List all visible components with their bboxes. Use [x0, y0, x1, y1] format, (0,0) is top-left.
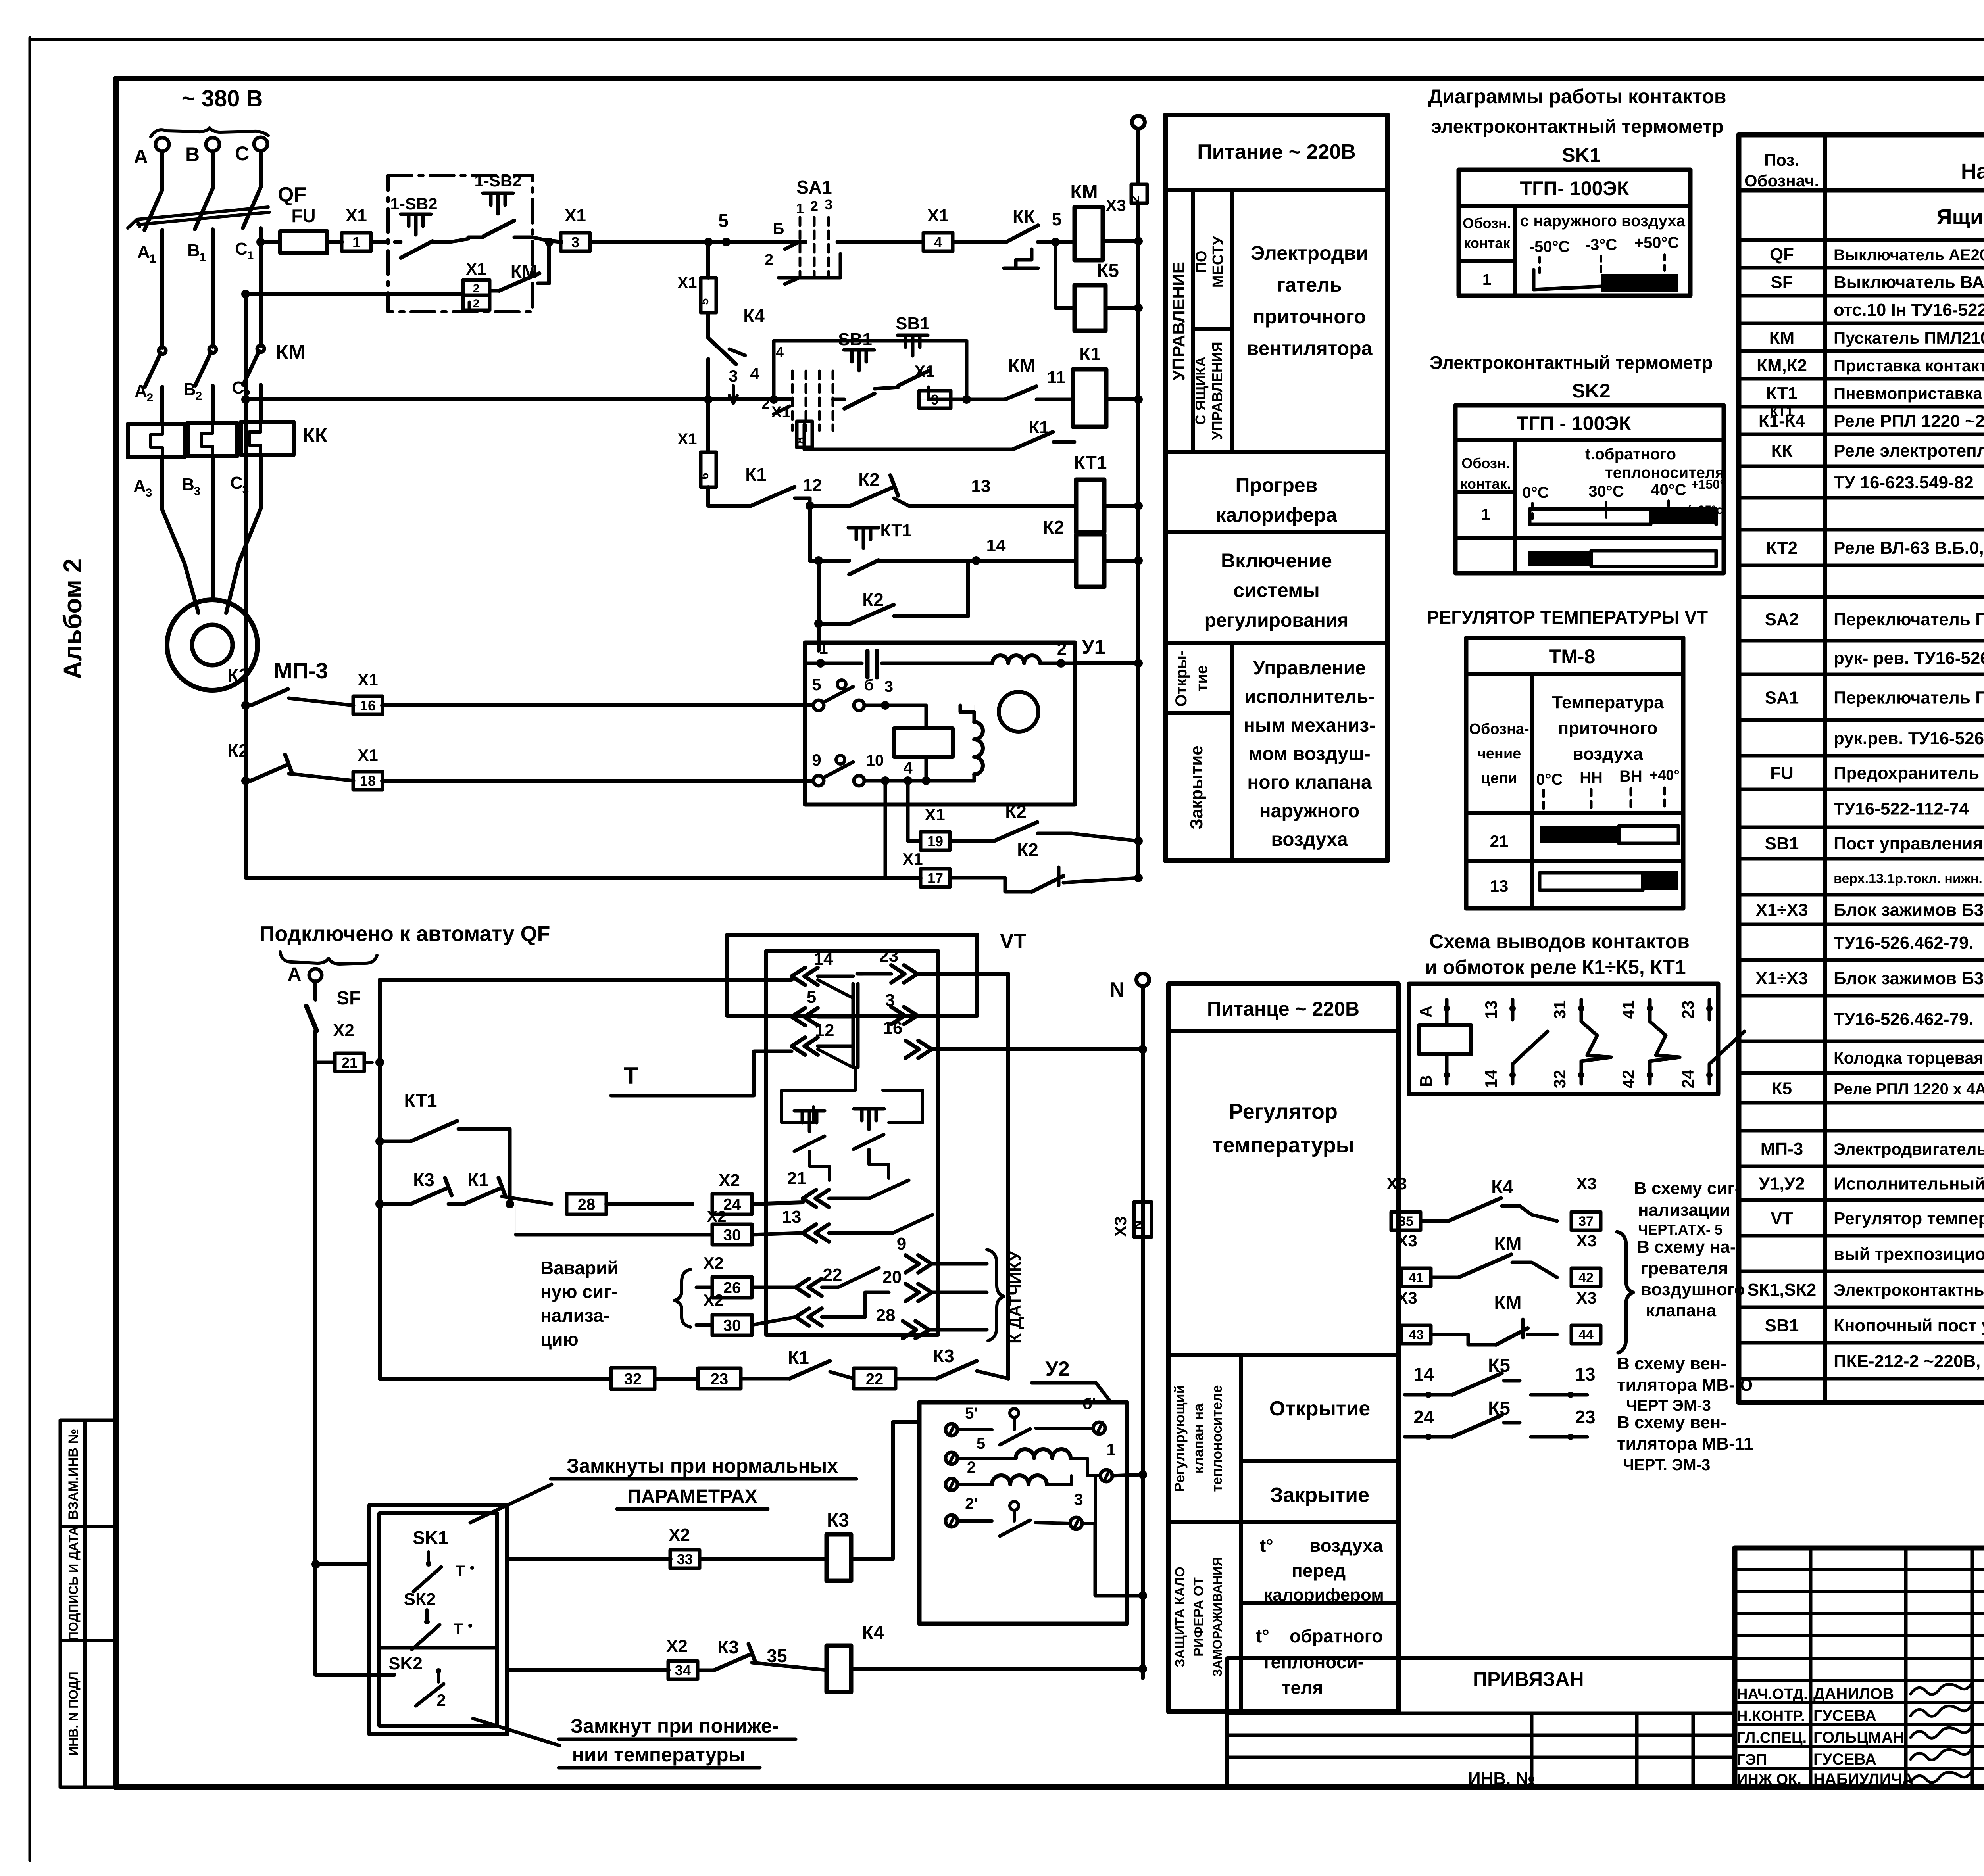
- svg-text:+150°: +150°: [1691, 477, 1725, 492]
- svg-text:Х2: Х2: [703, 1254, 723, 1272]
- left control rail: [244, 294, 248, 878]
- svg-text:30: 30: [723, 1317, 741, 1334]
- U2 pin1 to N bus: [1138, 1470, 1147, 1479]
- svg-text:2: 2: [196, 390, 202, 403]
- svg-text:ВН: ВН: [1619, 768, 1642, 785]
- row Открытие: [1241, 1459, 1398, 1463]
- svg-text:Исполнительный механизм МЭО: Исполнительный механизм МЭО: [1834, 1174, 1984, 1194]
- wire C1 drop: [259, 228, 263, 346]
- SK2 diagram box: [1455, 405, 1724, 573]
- svg-text:Реле РПЛ 1220 ~220В ТУ16-523.5: Реле РПЛ 1220 ~220В ТУ16-523.554-78: [1834, 411, 1984, 431]
- svg-text:Замкнуты при нормальных: Замкнуты при нормальных: [567, 1455, 838, 1477]
- svg-text:Х1: Х1: [565, 206, 586, 225]
- svg-text:2: 2: [147, 391, 154, 404]
- svg-text:Х2: Х2: [669, 1525, 690, 1545]
- svg-text:2: 2: [436, 1691, 446, 1709]
- svg-text:тие: тие: [1193, 665, 1211, 691]
- svg-text:У1,У2: У1,У2: [1759, 1174, 1805, 1194]
- svg-text:КТ1: КТ1: [404, 1090, 437, 1111]
- svg-text:2: 2: [1057, 639, 1067, 659]
- circuit breaker QF: [144, 190, 162, 230]
- svg-text:электроконтактный термометр: электроконтактный термометр: [1431, 116, 1723, 137]
- svg-text:3: 3: [571, 234, 579, 250]
- VT inner box: [766, 951, 938, 1335]
- function table2 frame: [1169, 984, 1398, 1712]
- switch SA1 lower group: [791, 371, 794, 430]
- svg-text:Электроконтактный термометр ТГ: Электроконтактный термометр ТГП-100ЭК: [1834, 1281, 1984, 1299]
- svg-text:Х1÷Х3: Х1÷Х3: [1756, 901, 1808, 920]
- svg-text:В схему вен-: В схему вен-: [1617, 1354, 1726, 1373]
- svg-text:УПРАВЛЕНИЕ: УПРАВЛЕНИЕ: [1169, 262, 1188, 381]
- svg-text:26: 26: [723, 1279, 741, 1296]
- svg-text:КК: КК: [1013, 206, 1035, 227]
- svg-text:Регулятор температуры полупров: Регулятор температуры полупроводнико-: [1834, 1209, 1984, 1228]
- svg-text:42: 42: [1578, 1270, 1594, 1285]
- svg-text:33: 33: [677, 1551, 693, 1567]
- svg-text:К1: К1: [788, 1347, 809, 1368]
- svg-text:Переключатель ПКУЗ-12С-УЗ схем: Переключатель ПКУЗ-12С-УЗ схема 2001: [1834, 688, 1984, 708]
- wire rung1 from C1: [261, 240, 280, 244]
- svg-text:Х2: Х2: [333, 1021, 354, 1040]
- rung B wire: [246, 397, 792, 401]
- svg-text:44: 44: [1578, 1327, 1594, 1342]
- svg-text:SA2: SA2: [1765, 610, 1799, 629]
- svg-text:КМ: КМ: [1070, 182, 1098, 203]
- svg-text:Х1: Х1: [771, 403, 791, 421]
- svg-text:32: 32: [624, 1370, 642, 1388]
- svg-text:верх.13.1р.токл. нижн. красн.1: верх.13.1р.токл. нижн. красн.13.1р.ТУ16-…: [1834, 871, 1984, 886]
- svg-text:А: А: [135, 381, 147, 401]
- svg-text:ГУСЕВА: ГУСЕВА: [1813, 1707, 1876, 1724]
- svg-text:t°: t°: [1260, 1535, 1273, 1556]
- motor MP-3: [167, 600, 258, 690]
- VT chevron 26 row with contact: [796, 1279, 809, 1296]
- svg-text:Х1: Х1: [678, 274, 697, 292]
- svg-text:рук.рев. ТУ16-526.047-74: рук.рев. ТУ16-526.047-74: [1834, 729, 1984, 748]
- svg-text:В: В: [182, 475, 194, 494]
- svg-text:тилятора МВ-11: тилятора МВ-11: [1617, 1434, 1753, 1454]
- svg-text:Х1: Х1: [902, 850, 923, 868]
- svg-text:КМ: КМ: [1494, 1234, 1521, 1255]
- svg-text:SB1: SB1: [896, 314, 930, 333]
- svg-text:Откры-: Откры-: [1173, 650, 1190, 707]
- rung SK1 to K3 coil: [311, 1560, 320, 1569]
- U2 top switch: [1010, 1409, 1019, 1417]
- svg-text:42: 42: [1619, 1070, 1638, 1089]
- svg-text:калорифером: калорифером: [1264, 1585, 1384, 1605]
- svg-text:ЧЕРТ.АТХ- 5: ЧЕРТ.АТХ- 5: [1638, 1221, 1723, 1238]
- svg-text:К1: К1: [1079, 344, 1101, 364]
- svg-text:21: 21: [342, 1054, 358, 1071]
- svg-text:К2: К2: [227, 665, 249, 685]
- svg-text:Х1: Х1: [346, 206, 367, 225]
- U1 pin2 wire to bus: [1075, 661, 1138, 665]
- row Закрытие: [1169, 1520, 1398, 1524]
- svg-text:FU: FU: [291, 205, 315, 226]
- svg-text:УПРАВЛЕНИЯ: УПРАВЛЕНИЯ: [1209, 342, 1225, 440]
- svg-text:чение: чение: [1477, 745, 1521, 762]
- contactor KM main contacts: [159, 347, 166, 354]
- U2 pin3 stub to N bus: [1095, 1523, 1143, 1596]
- svg-text:1: 1: [1481, 506, 1490, 523]
- svg-text:С ЯЩИКА: С ЯЩИКА: [1192, 357, 1209, 425]
- svg-text:Х3: Х3: [1105, 196, 1126, 215]
- svg-text:Электродви: Электродви: [1251, 242, 1368, 264]
- svg-text:теля: теля: [1282, 1677, 1323, 1698]
- svg-text:ГЭП: ГЭП: [1737, 1751, 1767, 1768]
- svg-text:SK1: SK1: [1562, 144, 1600, 166]
- svg-text:14: 14: [986, 536, 1006, 555]
- svg-text:Открытие: Открытие: [1269, 1397, 1370, 1420]
- brace avar: [675, 1269, 690, 1327]
- row t воздуха перед калорифером: [1241, 1601, 1398, 1605]
- svg-text:13: 13: [1575, 1364, 1595, 1384]
- svg-text:3: 3: [884, 678, 893, 695]
- terminal X1:9: [919, 399, 929, 400]
- svg-text:С: С: [235, 142, 249, 165]
- svg-text:Н.КОНТР.: Н.КОНТР.: [1737, 1708, 1805, 1724]
- svg-text:цепи: цепи: [1481, 770, 1517, 787]
- svg-text:КМ: КМ: [1769, 328, 1795, 348]
- svg-text:В: В: [185, 143, 200, 165]
- svg-text:Схема выводов контактов: Схема выводов контактов: [1429, 930, 1690, 952]
- svg-text:ТУ16-522-112-74: ТУ16-522-112-74: [1834, 799, 1969, 819]
- svg-text:6: 6: [698, 473, 711, 480]
- svg-text:НАЧ.ОТД.: НАЧ.ОТД.: [1737, 1686, 1808, 1703]
- svg-text:1: 1: [819, 639, 828, 657]
- svg-text:Ящик управления: Ящик управления: [1937, 205, 1984, 229]
- svg-text:35: 35: [1398, 1214, 1413, 1229]
- svg-text:11: 11: [1047, 368, 1066, 387]
- svg-text:У1: У1: [1082, 636, 1105, 658]
- svg-text:SB1: SB1: [1765, 834, 1799, 853]
- svg-text:Пускатель ПМЛ210004~220В ТУ16-: Пускатель ПМЛ210004~220В ТУ16-526.437-78: [1834, 328, 1984, 347]
- svg-text:Х1: Х1: [466, 259, 486, 278]
- svg-text:Б: Б: [773, 220, 784, 238]
- svg-text:8: 8: [794, 437, 807, 444]
- svg-text:В: В: [1417, 1075, 1435, 1087]
- wire B1 drop: [211, 229, 215, 347]
- svg-text:30°С: 30°С: [1588, 483, 1624, 500]
- table1 col dividers: [1191, 190, 1195, 452]
- svg-text:Пост управления ПКЕ-122-2УЗ т: Пост управления ПКЕ-122-2УЗ толк.: [1834, 834, 1984, 853]
- svg-text:РЕГУЛЯТОР ТЕМПЕРАТУРЫ VТ: РЕГУЛЯТОР ТЕМПЕРАТУРЫ VТ: [1427, 607, 1708, 628]
- wires to motor: [162, 457, 198, 613]
- svg-text:~ 380 В: ~ 380 В: [182, 86, 263, 111]
- svg-text:Включение: Включение: [1221, 549, 1332, 572]
- phase terminal B: [206, 138, 219, 151]
- wire A1 drop: [160, 230, 164, 348]
- U1 motor circle: [999, 692, 1038, 732]
- svg-text:Х3: Х3: [1576, 1174, 1596, 1193]
- svg-text:0°С: 0°С: [1536, 771, 1563, 788]
- svg-text:9: 9: [812, 751, 821, 769]
- VT outer box: [727, 935, 977, 1016]
- svg-text:5: 5: [807, 987, 816, 1007]
- svg-text:КМ,К2: КМ,К2: [1757, 356, 1807, 375]
- svg-text:ПО: ПО: [1193, 251, 1210, 273]
- svg-text:ВЗАМ.ИНВ №: ВЗАМ.ИНВ №: [66, 1429, 81, 1520]
- VT thyristor symbols: [794, 1109, 825, 1113]
- VT linkage: [852, 984, 855, 1067]
- svg-text:3: 3: [194, 485, 201, 498]
- svg-text:1: 1: [1106, 1440, 1115, 1459]
- svg-text:14: 14: [814, 949, 833, 969]
- svg-text:1: 1: [796, 200, 804, 217]
- svg-text:ДАНИЛОВ: ДАНИЛОВ: [1813, 1685, 1894, 1703]
- svg-text:Х3: Х3: [1397, 1231, 1417, 1250]
- wire phase A drop: [160, 151, 164, 190]
- bypass wire around SB1: [774, 341, 967, 399]
- wire B2: [211, 386, 215, 423]
- svg-text:Пневмоприставка ПВЛ1104 ТУ16-5: Пневмоприставка ПВЛ1104 ТУ16-526.437-78: [1834, 384, 1984, 403]
- wire to X1:3: [533, 237, 547, 240]
- thermometer box SK outer: [369, 1505, 507, 1734]
- wire phase C drop: [259, 151, 263, 187]
- wire phase B drop: [211, 151, 215, 188]
- parts table header: [1739, 188, 1984, 193]
- svg-text:28: 28: [578, 1196, 596, 1213]
- svg-text:ЧЕРТ ЭМ-3: ЧЕРТ ЭМ-3: [1626, 1397, 1711, 1414]
- svg-text:Х2: Х2: [666, 1636, 688, 1656]
- svg-text:FU: FU: [1770, 764, 1794, 783]
- phase terminal C: [254, 137, 267, 151]
- svg-text:Х3: Х3: [1386, 1174, 1407, 1193]
- svg-text:ЧЕРТ. ЭМ-3: ЧЕРТ. ЭМ-3: [1623, 1456, 1710, 1474]
- svg-text:нализации: нализации: [1638, 1200, 1730, 1220]
- svg-text:14: 14: [1413, 1364, 1434, 1384]
- sheet outer border left: [29, 38, 31, 1861]
- svg-text:ТМ-8: ТМ-8: [1549, 645, 1596, 668]
- svg-text:Выключатель ВА14-2614 I: Выключатель ВА14-2614 Iр=1,6А: [1834, 273, 1984, 292]
- svg-text:ТУ16-526.462-79.: ТУ16-526.462-79.: [1834, 1010, 1974, 1029]
- svg-text:Х1: Х1: [358, 746, 378, 764]
- svg-text:ПАРАМЕТРАХ: ПАРАМЕТРАХ: [627, 1486, 757, 1507]
- svg-text:цию: цию: [540, 1329, 579, 1350]
- U2 bottom switch: [1010, 1502, 1019, 1510]
- svg-text:Блок зажимов Б324-Ч.0П25-В/ВУ: Блок зажимов Б324-Ч.0П25-В/ВУЗ-10: [1834, 969, 1984, 988]
- table2 rotated Регулирующий клапан: [1239, 1355, 1243, 1712]
- V2 vertical and top feed: [378, 1062, 382, 1379]
- sheet outer border top: [30, 38, 1984, 41]
- svg-text:21: 21: [1490, 832, 1509, 851]
- svg-text:5: 5: [812, 675, 821, 694]
- svg-text:14: 14: [1482, 1070, 1500, 1088]
- svg-text:28: 28: [876, 1306, 896, 1325]
- terminal A SF: [309, 969, 322, 981]
- svg-text:А: А: [1417, 1006, 1435, 1018]
- svg-text:воздуха: воздуха: [1309, 1535, 1383, 1556]
- svg-text:2: 2: [967, 1459, 976, 1476]
- SK2 row2 bar: [1528, 551, 1591, 566]
- svg-text:1-SB2: 1-SB2: [390, 194, 437, 213]
- node junctions rung1: [545, 238, 554, 246]
- svg-text:приточного: приточного: [1558, 718, 1658, 738]
- svg-text:наружного: наружного: [1259, 801, 1360, 822]
- svg-text:К4: К4: [743, 305, 765, 326]
- svg-text:1: 1: [200, 251, 206, 264]
- svg-text:МП-3: МП-3: [1761, 1139, 1803, 1159]
- svg-text:С: С: [232, 378, 244, 397]
- svg-text:3: 3: [1074, 1490, 1083, 1509]
- svg-text:МП-3: МП-3: [274, 658, 328, 683]
- leader to caption normal: [470, 1484, 552, 1523]
- svg-text:t°: t°: [1256, 1626, 1269, 1646]
- svg-text:2: 2: [473, 297, 480, 310]
- svg-text:ИНЖ ОК.: ИНЖ ОК.: [1737, 1771, 1801, 1788]
- svg-text:+50°С: +50°С: [1634, 234, 1679, 252]
- aux signal rung K3 K1: [380, 1202, 411, 1206]
- svg-text:калорифера: калорифера: [1216, 504, 1337, 526]
- svg-text:4: 4: [776, 344, 784, 360]
- svg-text:мом воздуш-: мом воздуш-: [1248, 743, 1371, 764]
- svg-text:А: А: [137, 242, 150, 262]
- svg-text:ную сиг-: ную сиг-: [540, 1281, 617, 1302]
- svg-text:Поз.: Поз.: [1764, 151, 1799, 169]
- phase terminal A: [156, 138, 169, 151]
- svg-text:К2: К2: [1043, 517, 1064, 538]
- svg-text:N: N: [1130, 1220, 1146, 1230]
- svg-text:Х3: Х3: [1111, 1216, 1130, 1237]
- svg-text:Электроконтактный термометр: Электроконтактный термометр: [1430, 352, 1713, 373]
- svg-text:41: 41: [1619, 1000, 1638, 1019]
- svg-text:3: 3: [729, 367, 738, 385]
- svg-text:нализа-: нализа-: [540, 1305, 609, 1326]
- svg-text:воздуха: воздуха: [1573, 744, 1643, 764]
- svg-text:отс.10 Iн ТУ16-522.110-74: отс.10 Iн ТУ16-522.110-74: [1834, 300, 1984, 320]
- svg-text:тилятора МВ-Ю: тилятора МВ-Ю: [1617, 1375, 1753, 1395]
- svg-text:Колодка торцевая КТ5У ТУ16-526: Колодка торцевая КТ5У ТУ16-526.462-79: [1834, 1048, 1984, 1067]
- svg-text:2: 2: [810, 198, 818, 214]
- svg-text:регулирования: регулирования: [1205, 610, 1349, 631]
- svg-text:ЗАЩИТА КАЛО: ЗАЩИТА КАЛО: [1173, 1567, 1188, 1667]
- svg-text:КК: КК: [302, 424, 328, 447]
- svg-text:К1: К1: [745, 464, 767, 485]
- svg-text:НАБИУЛИЧА: НАБИУЛИЧА: [1813, 1770, 1913, 1788]
- U1 relay box: [894, 728, 953, 757]
- svg-text:гревателя: гревателя: [1641, 1259, 1728, 1278]
- svg-text:Регулирующий: Регулирующий: [1171, 1385, 1188, 1492]
- svg-text:5: 5: [1052, 210, 1061, 229]
- svg-text:23: 23: [1575, 1407, 1595, 1427]
- svg-text:30: 30: [723, 1226, 741, 1244]
- svg-text:КМ: КМ: [1008, 355, 1035, 376]
- rung2 self-hold wire: [246, 292, 463, 296]
- svg-text:ГУСЕВА: ГУСЕВА: [1813, 1751, 1876, 1768]
- svg-text:клапан на: клапан на: [1190, 1403, 1206, 1474]
- svg-text:-3°С: -3°С: [1585, 236, 1617, 253]
- svg-text:Подключено к автомату QF: Подключено к автомату QF: [259, 922, 550, 946]
- svg-text:Реле РПЛ 1220 х 4А~220В; ТУ16-: Реле РПЛ 1220 х 4А~220В; ТУ16-523.554-78: [1834, 1081, 1984, 1098]
- wire A2: [160, 387, 164, 424]
- svg-text:13: 13: [782, 1207, 802, 1227]
- svg-text:КТ2: КТ2: [1766, 538, 1798, 558]
- svg-text:2: 2: [765, 251, 773, 269]
- svg-text:1: 1: [352, 234, 360, 250]
- svg-text:К2: К2: [862, 589, 884, 610]
- svg-text:Реле электротепловое РТЛ101604: Реле электротепловое РТЛ101604: [1834, 441, 1984, 461]
- svg-text:Регулятор: Регулятор: [1229, 1100, 1338, 1123]
- sub branch X1:8 and K1 self-hold: [803, 424, 806, 449]
- svg-text:Приставка контактная ПКЛ ТУ16-: Приставка контактная ПКЛ ТУ16-526437-78: [1834, 356, 1984, 375]
- wire SA1 to X1:4: [845, 240, 923, 244]
- wire 16 to N bus: [932, 1047, 1143, 1051]
- svg-text:У2: У2: [1045, 1358, 1069, 1381]
- svg-text:Температура: Температура: [1552, 693, 1664, 712]
- svg-text:2: 2: [1127, 196, 1142, 203]
- U1 capacitor: [865, 651, 870, 677]
- contact KT1 bypass rung: [375, 1137, 384, 1146]
- svg-text:SK1: SK1: [413, 1527, 448, 1548]
- svg-text:ТУ16-526.462-79.: ТУ16-526.462-79.: [1834, 933, 1974, 952]
- svg-text:17: 17: [927, 870, 943, 886]
- svg-text:Электродвигатель 4А80В4 1.5кВт: Электродвигатель 4А80В4 1.5кВт~380 В: [1834, 1140, 1984, 1158]
- svg-text:43: 43: [1409, 1327, 1424, 1342]
- svg-text:С: С: [230, 473, 243, 493]
- svg-text:Х1÷Х3: Х1÷Х3: [1756, 969, 1808, 988]
- thermal relay KK heater B: [188, 423, 237, 456]
- svg-text:13: 13: [1490, 877, 1509, 895]
- U2 actuator box: [919, 1402, 1127, 1624]
- svg-text:19: 19: [927, 833, 943, 849]
- svg-text:обратного: обратного: [1290, 1626, 1383, 1646]
- svg-text:Х3: Х3: [1397, 1288, 1417, 1307]
- svg-text:SK2: SK2: [388, 1654, 423, 1673]
- svg-text:Выключатель АЕ2023-100УЗ~380ВТ: Выключатель АЕ2023-100УЗ~380ВТУ16.522.06…: [1834, 246, 1984, 264]
- svg-text:ГЛ.СПЕЦ.: ГЛ.СПЕЦ.: [1737, 1730, 1807, 1746]
- pinout coil: [1419, 1025, 1471, 1054]
- svg-text:3: 3: [825, 196, 832, 213]
- svg-text:13: 13: [1482, 1000, 1500, 1019]
- brace нагреватель: [1617, 1232, 1633, 1353]
- svg-text:К5: К5: [1097, 260, 1119, 281]
- svg-text:Закрытие: Закрытие: [1187, 745, 1206, 830]
- brace к датчику: [987, 1250, 1004, 1341]
- svg-text:5: 5: [977, 1435, 985, 1452]
- control bus vertical: [1132, 116, 1145, 129]
- svg-text:В схему на-: В схему на-: [1637, 1237, 1736, 1257]
- svg-text:Ваварий: Ваварий: [540, 1258, 619, 1278]
- TM8 box: [1466, 638, 1683, 908]
- svg-text:Х1: Х1: [914, 362, 934, 380]
- svg-text:ного клапана: ного клапана: [1247, 772, 1372, 793]
- rung C wire 12-13: [708, 504, 751, 508]
- VT bottom rung 32-23-22: [380, 1377, 611, 1381]
- svg-text:31: 31: [1550, 1000, 1569, 1019]
- svg-text:2': 2': [965, 1495, 978, 1513]
- svg-text:А: А: [133, 476, 146, 496]
- svg-text:5: 5: [698, 298, 711, 305]
- svg-text:37: 37: [1578, 1214, 1594, 1229]
- svg-text:Блок зажимов Б324-4.0П25-В/В: Блок зажимов Б324-4.0П25-В/В УЗ-5: [1834, 901, 1984, 920]
- svg-text:Т: Т: [624, 1062, 638, 1089]
- svg-text:5: 5: [718, 210, 729, 231]
- svg-text:SA1: SA1: [796, 177, 832, 198]
- svg-text:К2: К2: [858, 469, 880, 490]
- svg-text:системы: системы: [1233, 579, 1320, 601]
- svg-text:В схему вен-: В схему вен-: [1617, 1413, 1726, 1432]
- svg-text:перед: перед: [1292, 1560, 1346, 1581]
- svg-text:5': 5': [965, 1405, 978, 1422]
- svg-text:ЗАМОРАЖИВАНИЯ: ЗАМОРАЖИВАНИЯ: [1210, 1557, 1225, 1677]
- svg-text:N: N: [1109, 978, 1125, 1001]
- svg-text:SF: SF: [1771, 273, 1793, 292]
- svg-text:контак: контак: [1464, 235, 1511, 251]
- VT internal stair wires: [782, 1067, 856, 1123]
- svg-text:ПРИВЯЗАН: ПРИВЯЗАН: [1473, 1668, 1584, 1690]
- leader to caption low: [473, 1719, 559, 1745]
- U1 inductor: [992, 655, 1040, 663]
